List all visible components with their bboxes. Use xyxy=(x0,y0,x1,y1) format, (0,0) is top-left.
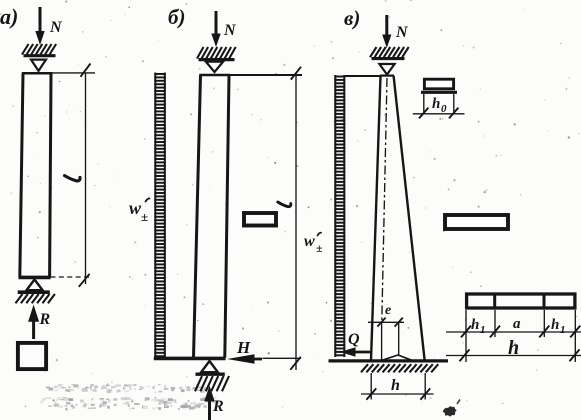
svg-text:1: 1 xyxy=(560,324,566,336)
svg-text:а): а) xyxy=(0,4,18,29)
svg-text:h: h xyxy=(551,317,559,333)
svg-text:б): б) xyxy=(168,5,185,29)
svg-text:R: R xyxy=(212,398,224,415)
svg-text:±: ± xyxy=(141,209,148,224)
svg-text:h: h xyxy=(471,317,479,333)
svg-text:h: h xyxy=(432,96,440,112)
svg-text:1: 1 xyxy=(480,324,486,336)
svg-text:±: ± xyxy=(316,241,323,255)
svg-text:0: 0 xyxy=(441,103,447,115)
svg-text:R: R xyxy=(39,311,51,328)
svg-text:N: N xyxy=(395,24,409,41)
svg-text:H: H xyxy=(236,338,251,357)
svg-text:Q: Q xyxy=(348,331,360,348)
svg-text:h: h xyxy=(391,377,400,394)
svg-text:N: N xyxy=(223,22,237,39)
svg-text:h: h xyxy=(508,337,519,359)
svg-text:e: e xyxy=(385,303,391,318)
svg-text:a: a xyxy=(513,316,521,332)
svg-text:в): в) xyxy=(344,6,360,30)
svg-text:w: w xyxy=(304,233,315,250)
svg-text:N: N xyxy=(49,19,63,36)
